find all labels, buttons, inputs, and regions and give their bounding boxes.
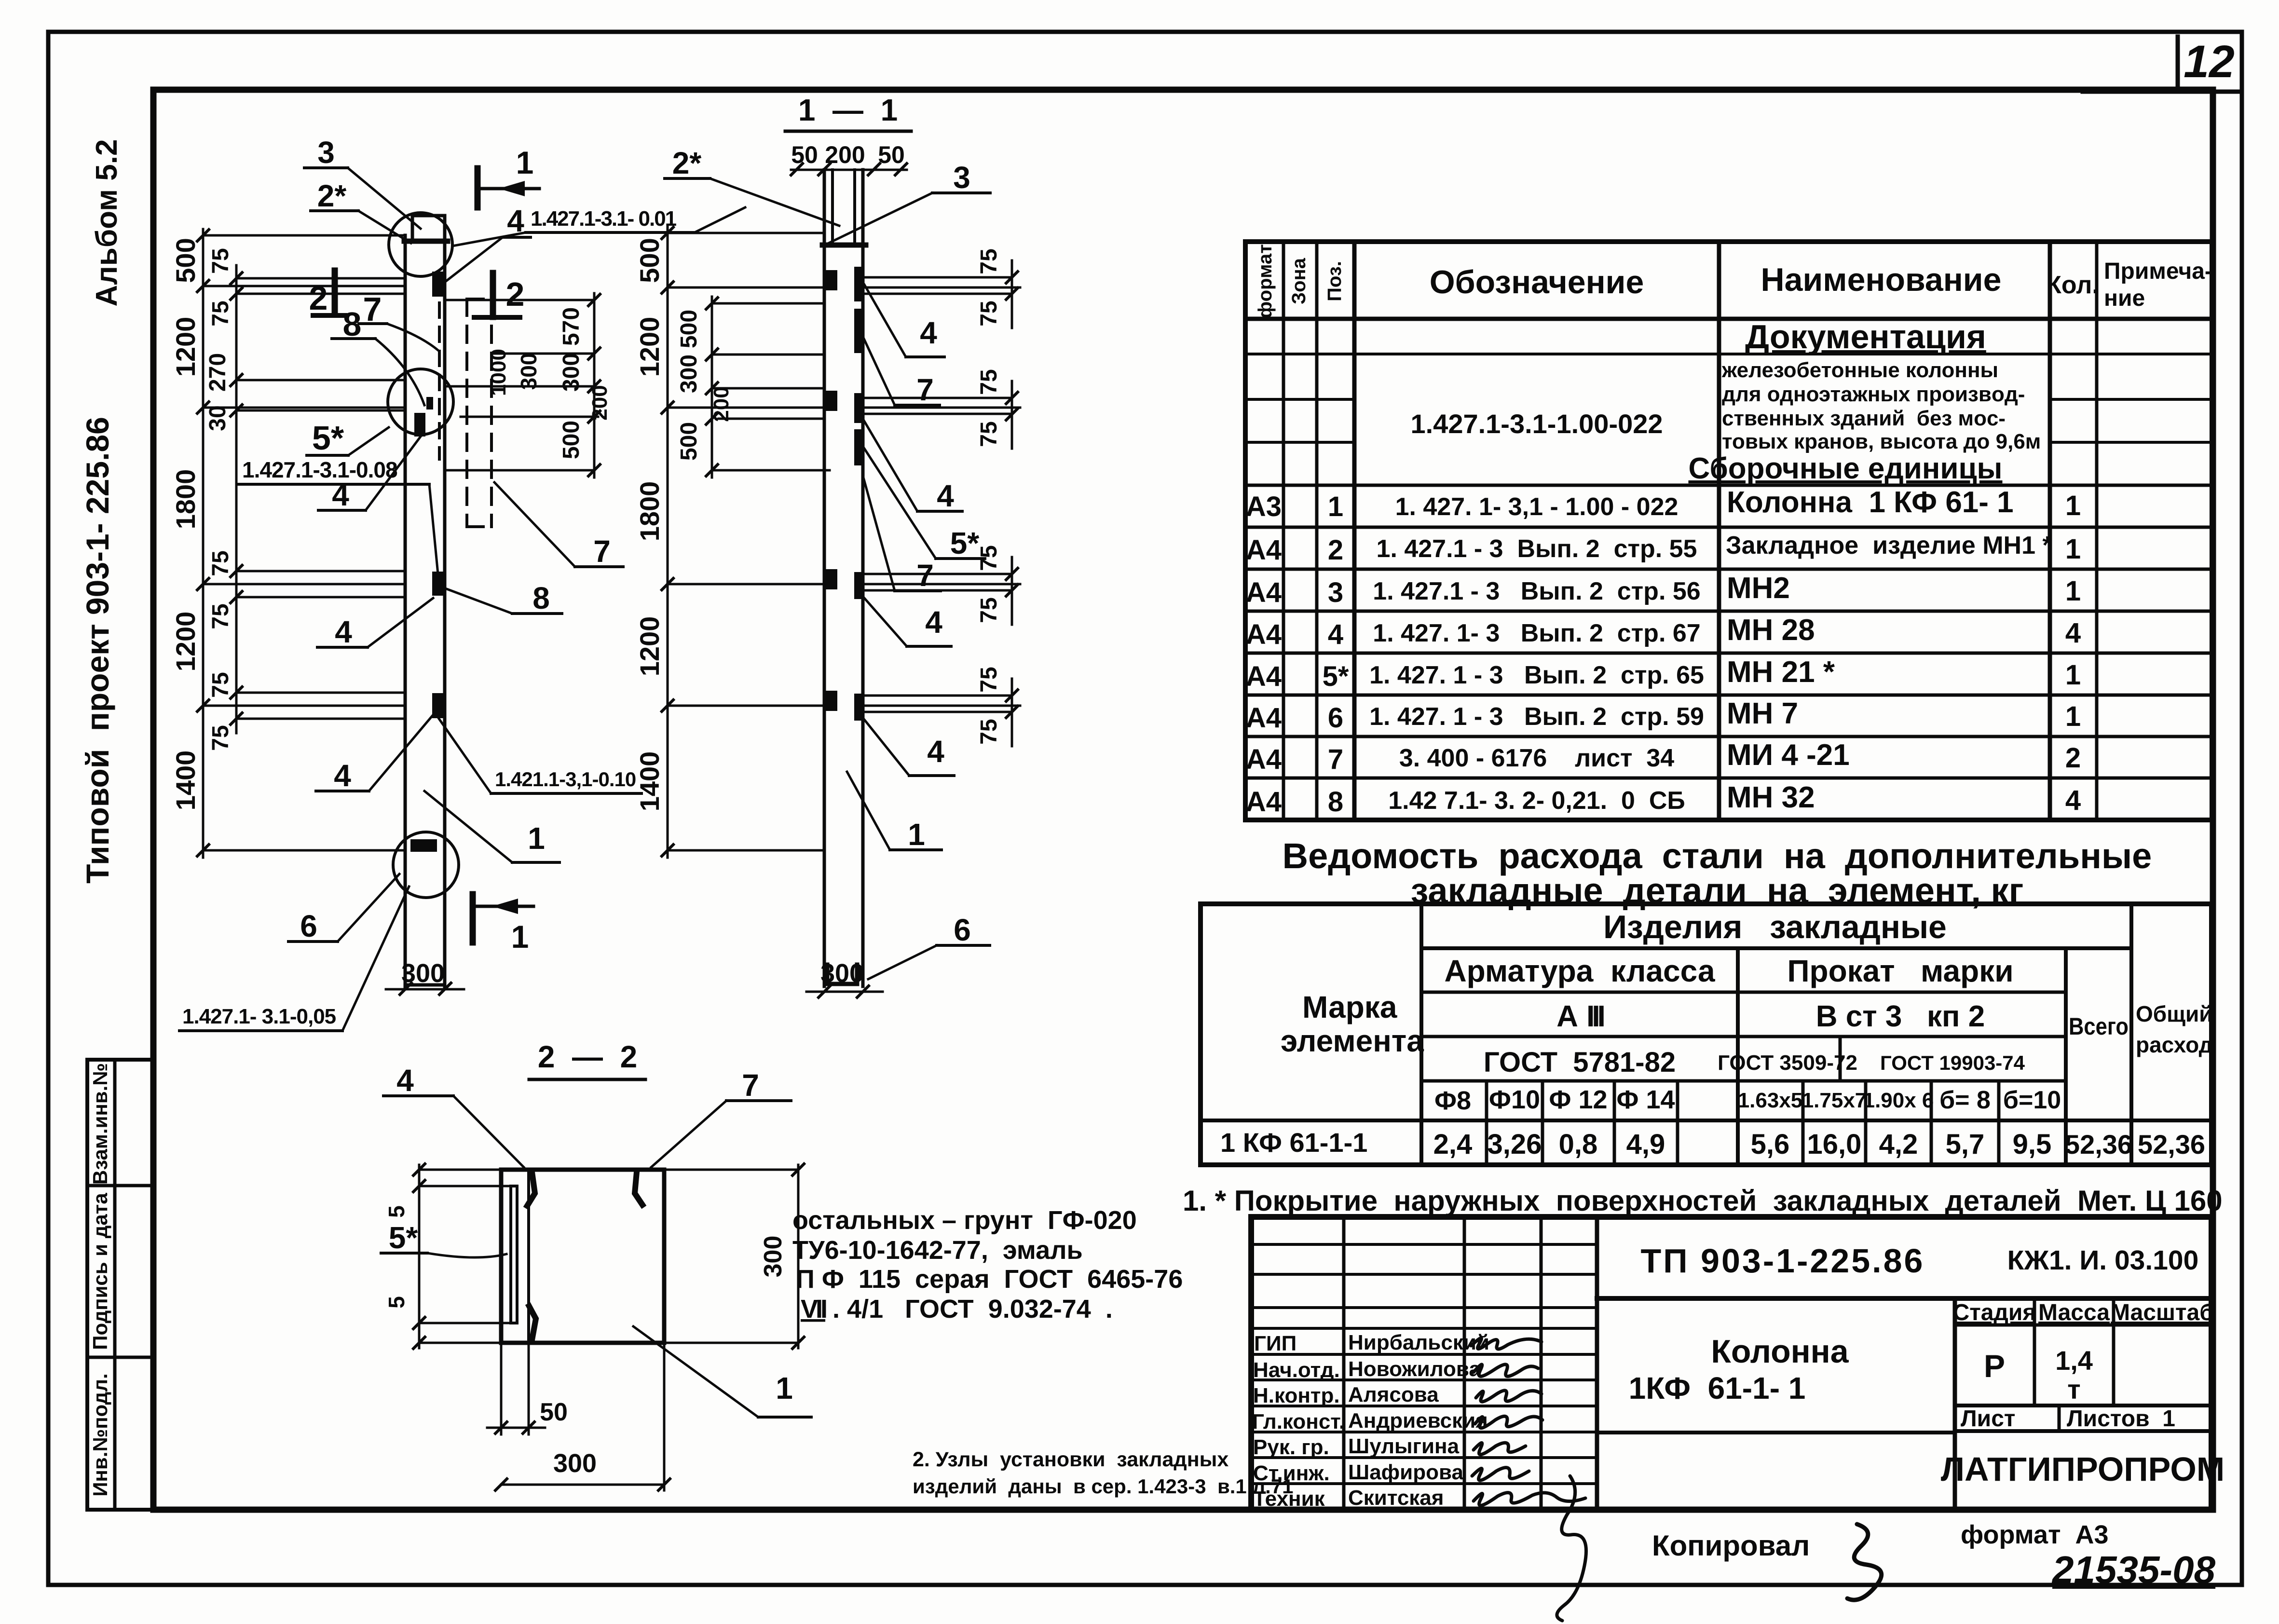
elev1 section mark 1 (top) xyxy=(478,145,539,207)
svg-text:Зона: Зона xyxy=(1288,258,1310,304)
parts table: Документация section xyxy=(1410,318,2041,485)
svg-text:1.75х7: 1.75х7 xyxy=(1802,1089,1867,1112)
svg-text:А4: А4 xyxy=(1246,534,1282,566)
stamp column labels xyxy=(89,1063,111,1497)
elev2 callout 4 (1st) xyxy=(864,285,944,357)
svg-text:52,36: 52,36 xyxy=(2065,1129,2132,1160)
elev2 top tube detail xyxy=(822,170,866,245)
elev1 secondary chain labels xyxy=(205,248,233,751)
svg-text:5: 5 xyxy=(384,1205,409,1218)
elev2 callout 3 xyxy=(828,160,990,244)
elev1 label 1.427.1-3.1-0.01 xyxy=(452,207,745,246)
title block organization xyxy=(1941,1450,2224,1488)
svg-text:16,0: 16,0 xyxy=(1807,1129,1862,1160)
svg-text:300: 300 xyxy=(553,1449,597,1478)
svg-text:4: 4 xyxy=(925,605,942,640)
steel table labels xyxy=(1281,909,2213,1115)
elev2 column shaft xyxy=(824,245,863,986)
left bottom stamp column box xyxy=(87,1060,153,1510)
svg-text:1: 1 xyxy=(908,817,925,852)
svg-text:75: 75 xyxy=(208,725,233,751)
svg-text:1.427.1- 3.1-0,05: 1.427.1- 3.1-0,05 xyxy=(182,1005,336,1028)
elev1 label 1.427.1-3.1-0.08 xyxy=(239,457,438,574)
svg-text:1: 1 xyxy=(2065,490,2081,521)
svg-text:570: 570 xyxy=(559,307,584,346)
svg-text:Андриевския: Андриевския xyxy=(1348,1409,1488,1433)
elev2 right 75 dims xyxy=(863,248,1020,746)
svg-text:500: 500 xyxy=(634,238,665,283)
svg-text:1.90х 6: 1.90х 6 xyxy=(1863,1089,1934,1112)
svg-text:1: 1 xyxy=(516,145,534,180)
svg-text:1800: 1800 xyxy=(634,481,665,542)
svg-text:7: 7 xyxy=(742,1068,759,1103)
note 2 xyxy=(913,1448,1294,1498)
svg-text:Шафирова: Шафирова xyxy=(1348,1460,1463,1484)
svg-text:21535-08: 21535-08 xyxy=(2051,1548,2216,1591)
steel table data row xyxy=(1220,1127,2205,1160)
elev1 callout 7 (channel) xyxy=(494,482,623,569)
svg-text:ГОСТ 19903-74: ГОСТ 19903-74 xyxy=(1880,1051,2025,1074)
svg-text:1 КФ 61-1-1: 1 КФ 61-1-1 xyxy=(1220,1127,1367,1158)
title block signature names xyxy=(1348,1331,1489,1510)
elev2 callout 4 (3rd) xyxy=(864,598,951,646)
section2-2 right 300 dim xyxy=(664,1164,804,1349)
title block outer xyxy=(1251,1217,2211,1510)
svg-text:2: 2 xyxy=(2065,742,2081,774)
svg-text:Ст.инж.: Ст.инж. xyxy=(1253,1461,1330,1485)
svg-text:МН 32: МН 32 xyxy=(1727,781,1815,814)
title block signature grid xyxy=(1251,1217,1597,1510)
svg-text:ГОСТ 3509-72: ГОСТ 3509-72 xyxy=(1718,1051,1857,1075)
svg-text:ТП 903-1-225.86: ТП 903-1-225.86 xyxy=(1641,1242,1925,1280)
elev1 callout 8 (upper) xyxy=(332,305,424,405)
svg-text:1200: 1200 xyxy=(170,612,201,672)
svg-text:300: 300 xyxy=(676,355,702,393)
svg-text:т: т xyxy=(2067,1374,2080,1405)
elev2 callout 5* xyxy=(864,449,985,560)
elev1 callout 5* xyxy=(307,419,389,457)
parts table: item rows xyxy=(1246,486,2081,818)
svg-text:Колонна 1 КФ 61- 1: Колонна 1 КФ 61- 1 xyxy=(1727,486,2014,519)
svg-text:4: 4 xyxy=(334,758,351,793)
svg-text:3: 3 xyxy=(1328,577,1343,608)
elev2 main chain labels xyxy=(634,238,665,811)
svg-text:5,7: 5,7 xyxy=(1946,1129,1985,1160)
svg-text:75: 75 xyxy=(208,672,233,697)
svg-text:б=10: б=10 xyxy=(2003,1086,2061,1114)
svg-text:75: 75 xyxy=(208,248,233,273)
svg-text:товых кранов, высота до 9,6м: товых кранов, высота до 9,6м xyxy=(1722,430,2041,453)
svg-text:Примеча-: Примеча- xyxy=(2104,259,2212,284)
elev1 section mark 2 (right) xyxy=(474,273,524,317)
svg-text:1: 1 xyxy=(2065,533,2081,565)
svg-text:1. * Покрытие наружных повер: 1. * Покрытие наружных поверхностей закл… xyxy=(1183,1185,2223,1217)
steel table grid xyxy=(1201,904,2211,1165)
svg-text:300: 300 xyxy=(401,959,445,988)
svg-text:1.427.1-3.1-1.00-022: 1.427.1-3.1-1.00-022 xyxy=(1410,409,1663,439)
section2-2 corner anchor hooks xyxy=(527,1172,642,1340)
svg-text:4: 4 xyxy=(2065,785,2081,816)
title block stage/mass/scale xyxy=(1953,1298,2214,1406)
elev1 callout 4 (third) xyxy=(317,598,433,649)
parts table grid xyxy=(1245,242,2212,820)
svg-text:75: 75 xyxy=(976,369,1002,395)
svg-text:Инв.№подл.: Инв.№подл. xyxy=(89,1373,111,1496)
elev1 section mark 1 (bottom) xyxy=(473,894,533,955)
svg-text:Наименование: Наименование xyxy=(1761,261,2002,298)
svg-text:5*: 5* xyxy=(389,1220,418,1255)
svg-text:ГИП: ГИП xyxy=(1254,1332,1296,1355)
svg-text:1000: 1000 xyxy=(487,349,510,396)
svg-text:4: 4 xyxy=(2065,617,2081,649)
svg-text:8: 8 xyxy=(532,581,550,615)
title block product name cell xyxy=(1597,1298,1955,1510)
section2-2 callout 5* xyxy=(381,1220,506,1257)
svg-text:1КФ 61-1- 1: 1КФ 61-1- 1 xyxy=(1629,1371,1806,1406)
svg-text:200: 200 xyxy=(710,386,733,422)
svg-text:2*: 2* xyxy=(317,178,347,213)
svg-text:Закладное изделие МН1 *: Закладное изделие МН1 * xyxy=(1726,532,2052,560)
svg-text:2,4: 2,4 xyxy=(1433,1129,1473,1160)
svg-text:1. 427.1 - 3 Вып. 2 стр. 55: 1. 427.1 - 3 Вып. 2 стр. 55 xyxy=(1377,535,1697,563)
section2-2 bottom 300 dim xyxy=(495,1343,670,1490)
svg-text:Р: Р xyxy=(1984,1348,2005,1384)
svg-text:12: 12 xyxy=(2183,36,2235,87)
svg-text:МН 7: МН 7 xyxy=(1727,697,1798,730)
svg-text:Рук. гр.: Рук. гр. xyxy=(1253,1435,1329,1459)
svg-text:Марка: Марка xyxy=(1302,990,1397,1024)
svg-text:75: 75 xyxy=(976,300,1002,326)
elev2 inner sub-chain labels xyxy=(676,310,733,461)
svg-text:Ф10: Ф10 xyxy=(1489,1085,1540,1114)
elev1 embedded plate marks on shaft xyxy=(410,272,445,852)
svg-text:1: 1 xyxy=(2065,659,2081,691)
steel table title xyxy=(1283,836,2152,911)
svg-text:75: 75 xyxy=(208,550,233,576)
svg-text:9,5: 9,5 xyxy=(2013,1129,2052,1160)
elev2 embedded plate marks xyxy=(826,267,863,721)
svg-text:2*: 2* xyxy=(672,146,702,180)
elev1 label 1.427.1-3.1-0.05 xyxy=(179,887,409,1031)
svg-text:Кол.: Кол. xyxy=(2046,271,2099,299)
svg-text:Изделия закладные: Изделия закладные xyxy=(1603,909,1947,945)
svg-text:75: 75 xyxy=(976,421,1002,447)
svg-text:П Ф 115 серая ГОСТ 6465-76: П Ф 115 серая ГОСТ 6465-76 xyxy=(796,1265,1183,1294)
svg-text:4: 4 xyxy=(335,614,352,649)
svg-text:Общий: Общий xyxy=(2136,1001,2213,1026)
parts table header labels xyxy=(1255,244,2212,318)
svg-text:4: 4 xyxy=(937,478,954,513)
section2-2 column square xyxy=(501,1170,664,1343)
svg-text:1. 427. 1- 3,1 - 1.00 - 022: 1. 427. 1- 3,1 - 1.00 - 022 xyxy=(1395,493,1679,521)
svg-text:Лист: Лист xyxy=(1961,1406,2015,1432)
svg-text:Взам.инв.№: Взам.инв.№ xyxy=(89,1063,111,1185)
elev2 callout 7 (2nd) xyxy=(863,478,941,593)
svg-text:ственных зданий без мoс-: ственных зданий без мoс- xyxy=(1722,407,2006,430)
elev1 secondary chain xyxy=(231,265,242,733)
elev1 right sub-dimension chain xyxy=(445,293,600,478)
svg-text:4: 4 xyxy=(927,734,944,769)
svg-text:МН 21 *: МН 21 * xyxy=(1727,655,1835,689)
svg-text:8: 8 xyxy=(1328,786,1343,818)
svg-text:4: 4 xyxy=(920,315,937,350)
svg-text:А4: А4 xyxy=(1246,702,1282,734)
svg-text:МИ 4 -21: МИ 4 -21 xyxy=(1727,738,1850,772)
annotation below title block xyxy=(1652,1520,2109,1600)
elev1 hidden channel dashed outline xyxy=(467,299,491,527)
svg-text:4,9: 4,9 xyxy=(1626,1129,1665,1160)
svg-text:4: 4 xyxy=(396,1063,414,1098)
elev1 right sub-chain labels xyxy=(487,307,612,459)
svg-text:Прокат марки: Прокат марки xyxy=(1787,954,2013,988)
svg-text:1: 1 xyxy=(2065,575,2081,607)
elev2 callout 6 xyxy=(868,913,990,979)
svg-text:Копировал: Копировал xyxy=(1652,1529,1810,1562)
svg-text:А4: А4 xyxy=(1246,577,1282,608)
svg-text:ние: ние xyxy=(2104,286,2145,311)
svg-text:6: 6 xyxy=(1328,702,1343,734)
section2-2 callout 4 xyxy=(383,1063,524,1167)
elev1 callout 7 (upper) xyxy=(359,290,438,350)
svg-text:1: 1 xyxy=(1328,491,1343,522)
svg-text:1200: 1200 xyxy=(170,317,201,377)
section2-2 left 5 dims xyxy=(384,1164,511,1349)
elev1 extension lines xyxy=(203,235,405,850)
elev1 callout 1 xyxy=(424,791,560,862)
title block signature roles xyxy=(1252,1332,1345,1511)
svg-text:изделий даны в сер. 1.423-3: изделий даны в сер. 1.423-3 в.1 л.71 xyxy=(913,1475,1294,1498)
note 1 xyxy=(1183,1185,2223,1217)
svg-text:Техник: Техник xyxy=(1253,1487,1325,1511)
svg-text:б= 8: б= 8 xyxy=(1939,1086,1991,1114)
svg-text:1200: 1200 xyxy=(634,317,665,377)
svg-text:75: 75 xyxy=(976,719,1002,744)
svg-text:VII . 4/1 ГОСТ 9.032-74 .: VII . 4/1 ГОСТ 9.032-74 . xyxy=(801,1295,1113,1324)
svg-text:А3: А3 xyxy=(1246,491,1282,522)
svg-text:1. 427.1 - 3 Вып. 2 стр. 56: 1. 427.1 - 3 Вып. 2 стр. 56 xyxy=(1373,577,1700,605)
svg-text:5: 5 xyxy=(384,1296,409,1309)
svg-text:Шулыгина: Шулыгина xyxy=(1348,1434,1460,1458)
svg-text:Стадия: Стадия xyxy=(1953,1300,2036,1325)
svg-text:4: 4 xyxy=(1328,619,1343,650)
svg-text:МН 28: МН 28 xyxy=(1727,614,1815,647)
svg-text:ГОСТ 5781-82: ГОСТ 5781-82 xyxy=(1484,1047,1676,1078)
elev2 callout 1 xyxy=(847,772,942,852)
svg-text:А III: А III xyxy=(1556,1000,1604,1033)
svg-text:2: 2 xyxy=(309,279,328,317)
svg-text:6: 6 xyxy=(954,913,971,947)
svg-text:1.421.1-3,1-0.10: 1.421.1-3,1-0.10 xyxy=(495,768,636,791)
elev1 callout 3 xyxy=(304,135,421,229)
svg-text:Ф 14: Ф 14 xyxy=(1616,1085,1675,1114)
elev1 main chain labels xyxy=(170,238,201,810)
svg-text:1 — 1: 1 — 1 xyxy=(798,93,898,127)
svg-text:1200: 1200 xyxy=(634,616,665,677)
elev2 bottom width dim 300 xyxy=(806,959,883,997)
section2-2 callout 7 xyxy=(651,1068,791,1167)
section2-2 embedded channel left xyxy=(511,1170,529,1343)
svg-text:Масштаб: Масштаб xyxy=(2111,1300,2214,1325)
svg-text:4: 4 xyxy=(507,204,524,238)
svg-text:500: 500 xyxy=(170,238,201,283)
svg-text:Сборочные единицы: Сборочные единицы xyxy=(1689,452,2003,485)
svg-text:Гл.конст.: Гл.конст. xyxy=(1252,1410,1345,1433)
svg-text:Всего: Всего xyxy=(2069,1013,2129,1040)
elev1 callout 6 xyxy=(288,874,399,943)
elev2 extension lines left xyxy=(668,233,824,850)
elev1 section mark 2 (left) xyxy=(309,271,345,317)
svg-text:Алясова: Алясова xyxy=(1348,1383,1439,1406)
svg-text:КЖ1. И. 03.100: КЖ1. И. 03.100 xyxy=(2007,1245,2199,1276)
svg-text:75: 75 xyxy=(976,667,1002,692)
svg-text:МН2: МН2 xyxy=(1727,572,1790,605)
elev2 top width dims 50 200 50 xyxy=(791,141,907,175)
svg-text:50: 50 xyxy=(878,141,905,168)
svg-text:2: 2 xyxy=(1328,534,1343,566)
section2-2 callout 1 xyxy=(633,1326,811,1417)
title block list row xyxy=(1955,1406,2211,1432)
svg-text:Нач.отд.: Нач.отд. xyxy=(1253,1358,1340,1382)
svg-text:1400: 1400 xyxy=(634,751,665,812)
svg-text:300: 300 xyxy=(559,353,584,392)
elev2 view title 1-1 xyxy=(785,93,911,131)
svg-text:4,2: 4,2 xyxy=(1879,1129,1918,1160)
title block document numbers row xyxy=(1597,1242,2211,1298)
svg-text:300: 300 xyxy=(820,959,864,988)
handwritten archive number xyxy=(2051,1548,2216,1591)
svg-text:75: 75 xyxy=(208,300,233,326)
svg-text:1. 427. 1- 3 Вып. 2 стр. 67: 1. 427. 1- 3 Вып. 2 стр. 67 xyxy=(1373,619,1700,647)
svg-text:1: 1 xyxy=(2065,701,2081,732)
section2-2 bottom 50 dim xyxy=(487,1343,568,1434)
svg-text:остальных – грунт ГФ-020: остальных – грунт ГФ-020 xyxy=(792,1206,1137,1235)
svg-text:Альбом 5.2: Альбом 5.2 xyxy=(90,139,123,307)
page number cell top right xyxy=(2083,36,2242,92)
svg-text:1.63х5: 1.63х5 xyxy=(1738,1089,1803,1112)
svg-text:500: 500 xyxy=(559,421,584,459)
svg-text:А4: А4 xyxy=(1246,786,1282,818)
svg-text:30: 30 xyxy=(205,405,231,431)
svg-text:7: 7 xyxy=(593,534,611,569)
svg-text:1: 1 xyxy=(776,1371,793,1406)
svg-text:Документация: Документация xyxy=(1745,318,1986,355)
svg-text:3. 400 - 6176 лист 34: 3. 400 - 6176 лист 34 xyxy=(1399,744,1674,772)
elev2 callout 2* xyxy=(665,146,839,226)
elev1 hidden line inside shaft xyxy=(438,303,441,459)
svg-text:1,4: 1,4 xyxy=(2055,1345,2093,1376)
svg-text:7: 7 xyxy=(916,558,934,593)
svg-text:Листов 1: Листов 1 xyxy=(2067,1406,2175,1432)
svg-text:для одноэтажных произвoд-: для одноэтажных произвoд- xyxy=(1722,382,2025,406)
elev2 callout 4 (2nd) xyxy=(863,420,962,513)
svg-text:ТУ6-10-1642-77, эмаль: ТУ6-10-1642-77, эмаль xyxy=(792,1236,1083,1265)
svg-text:6: 6 xyxy=(300,909,317,943)
svg-text:Масса: Масса xyxy=(2038,1300,2110,1325)
svg-text:формат А3: формат А3 xyxy=(1961,1520,2109,1549)
svg-text:1: 1 xyxy=(511,919,529,955)
svg-text:52,36: 52,36 xyxy=(2138,1129,2205,1160)
svg-text:3: 3 xyxy=(317,135,335,170)
elev2 callout 4 (4th) xyxy=(864,720,954,776)
svg-text:5*: 5* xyxy=(312,419,344,457)
svg-text:А4: А4 xyxy=(1246,661,1282,692)
left margin rotated text: Альбом 5.2 xyxy=(90,139,123,307)
svg-text:Поз.: Поз. xyxy=(1324,261,1345,301)
elev2 main dimension chain xyxy=(662,227,673,858)
svg-text:50: 50 xyxy=(540,1398,568,1426)
elev1 callout 4 (fourth) xyxy=(316,715,433,793)
svg-text:300: 300 xyxy=(759,1236,787,1278)
svg-text:200: 200 xyxy=(588,385,612,420)
left margin rotated text: Типовой проект 903-1-225.86 xyxy=(80,417,115,884)
svg-text:Колонна: Колонна xyxy=(1711,1333,1849,1370)
svg-text:75: 75 xyxy=(208,603,233,629)
section2-2 title xyxy=(529,1039,645,1079)
elev1 bottom width dim 300 xyxy=(386,959,464,995)
elev1 main dimension chain xyxy=(197,229,209,858)
svg-text:1400: 1400 xyxy=(170,751,201,811)
svg-text:расход: расход xyxy=(2136,1032,2213,1057)
svg-text:ЛАТГИПРОПРОМ: ЛАТГИПРОПРОМ xyxy=(1941,1450,2224,1488)
svg-text:7: 7 xyxy=(916,372,934,407)
svg-text:Типовой проект 903-1- 225.86: Типовой проект 903-1- 225.86 xyxy=(80,417,115,884)
svg-text:2 — 2: 2 — 2 xyxy=(538,1039,637,1074)
elev1 callout 4 (top) xyxy=(445,204,531,282)
svg-text:75: 75 xyxy=(976,597,1002,623)
svg-text:Обозначение: Обозначение xyxy=(1430,264,1644,300)
svg-text:1. 427. 1 - 3 Вып. 2 стр. 6: 1. 427. 1 - 3 Вып. 2 стр. 65 xyxy=(1369,661,1704,689)
svg-text:А4: А4 xyxy=(1246,619,1282,650)
svg-text:Подпись и дата: Подпись и дата xyxy=(89,1193,111,1350)
svg-text:2. Узлы установки закладных: 2. Узлы установки закладных xyxy=(913,1448,1228,1471)
svg-text:500: 500 xyxy=(676,422,702,461)
svg-text:В ст 3 кп 2: В ст 3 кп 2 xyxy=(1816,1000,1985,1033)
svg-text:1.427.1-3.1-0.08: 1.427.1-3.1-0.08 xyxy=(242,457,397,482)
note: paint spec block xyxy=(792,1206,1183,1324)
svg-text:7: 7 xyxy=(1328,744,1343,775)
elev1 detail circles xyxy=(388,213,459,898)
drawing frame xyxy=(153,90,2213,1510)
svg-text:1.42 7.1- 3. 2- 0,21. 0 СБ: 1.42 7.1- 3. 2- 0,21. 0 СБ xyxy=(1388,787,1685,815)
svg-text:Ведомость расхода стали на: Ведомость расхода стали на дополнительны… xyxy=(1283,836,2152,876)
svg-text:5,6: 5,6 xyxy=(1751,1129,1790,1160)
svg-text:Ф 12: Ф 12 xyxy=(1549,1085,1607,1114)
svg-text:железобетонные колонны: железобетонные колонны xyxy=(1721,358,1998,382)
elev1 callout 4 (second) xyxy=(318,437,421,512)
svg-text:4: 4 xyxy=(332,478,349,512)
svg-text:2: 2 xyxy=(506,275,525,313)
elev1 callout 8 (lower) xyxy=(443,581,562,615)
svg-text:1. 427. 1 - 3 Вып. 2 стр. 5: 1. 427. 1 - 3 Вып. 2 стр. 59 xyxy=(1369,703,1704,731)
title block handwritten signatures xyxy=(1471,1338,1586,1621)
elev1 column shaft xyxy=(404,216,448,988)
svg-text:Н.контр.: Н.контр. xyxy=(1253,1384,1340,1407)
svg-text:Ф8: Ф8 xyxy=(1434,1086,1471,1115)
svg-text:Скитская: Скитская xyxy=(1348,1486,1444,1510)
svg-text:75: 75 xyxy=(976,248,1002,274)
svg-text:1: 1 xyxy=(528,821,545,856)
svg-text:Нирбальский: Нирбальский xyxy=(1348,1331,1489,1354)
svg-text:270: 270 xyxy=(205,353,231,392)
svg-text:Новожилова: Новожилова xyxy=(1348,1357,1481,1381)
svg-text:3: 3 xyxy=(953,160,970,195)
svg-text:5*: 5* xyxy=(950,526,980,560)
svg-text:50: 50 xyxy=(791,141,818,168)
svg-text:5*: 5* xyxy=(1323,661,1349,692)
svg-text:элемента: элемента xyxy=(1281,1024,1424,1058)
svg-text:1.427.1-3.1- 0.01: 1.427.1-3.1- 0.01 xyxy=(531,207,677,231)
svg-text:формат: формат xyxy=(1255,244,1276,318)
